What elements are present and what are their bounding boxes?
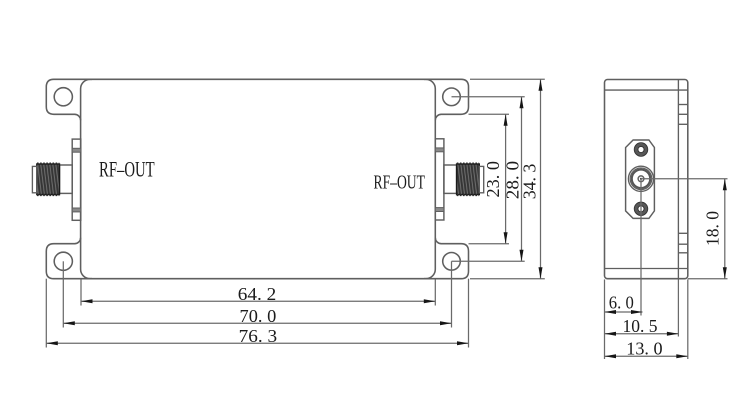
dimension line 10.5 (605, 333, 679, 335)
flange hole band lower-right (435, 208, 444, 212)
mounting hole top-left (54, 88, 72, 106)
centerline from jack center to right (18.0) (641, 178, 728, 180)
extension line right ear outer edge (76.3) (468, 279, 470, 348)
side view face strip line (677, 80, 679, 279)
mounting ear bottom-left (46, 238, 92, 279)
extension line bottom-right hole center (70.0) (451, 261, 453, 327)
svg-text:70. 0: 70. 0 (240, 306, 277, 326)
SMA connector right: end cap (479, 166, 483, 192)
thread crest bumps right top (457, 163, 479, 165)
svg-text:RF–OUT: RF–OUT (374, 172, 425, 194)
svg-text:76. 3: 76. 3 (239, 326, 278, 346)
svg-text:6. 0: 6. 0 (609, 293, 634, 313)
dimension line 64.2 (81, 300, 435, 302)
SMA jack center dot (640, 178, 642, 180)
extension strip line down (10.5) (677, 279, 679, 336)
flange hole band upper-right (435, 148, 444, 152)
SMA jack thick ring (632, 170, 650, 188)
strip tick 3 (678, 123, 687, 125)
arrows 6.0 (605, 310, 617, 314)
strip tick 2 (678, 113, 687, 115)
svg-text:RF–OUT: RF–OUT (99, 156, 155, 181)
arrows 13.0 (605, 354, 617, 358)
SMA jack center pin circle (638, 176, 644, 182)
extension line from bottom edge (34.3) (470, 278, 545, 280)
extension line bottom-left hole center (70.0) (62, 261, 64, 327)
side view lid seam top (605, 89, 688, 91)
thread crest bumps right bottom (457, 194, 479, 196)
dimension line 70.0 (63, 322, 451, 324)
flange hole band lower-left (72, 208, 81, 212)
arrows 23.0 (504, 114, 508, 126)
side view lid seam bottom (605, 268, 688, 270)
flange screw hole top (636, 145, 646, 155)
arrows 34.3 (539, 79, 543, 91)
SMA jack outer circle (628, 166, 653, 191)
svg-text:18. 0: 18. 0 (703, 211, 723, 246)
strip tick 6 (678, 252, 687, 254)
mounting hole bottom-right (443, 252, 461, 270)
flange screw hole bottom (636, 204, 646, 214)
SMA flange face plate (626, 140, 655, 218)
svg-text:23. 0: 23. 0 (483, 161, 503, 198)
strip tick 4 (678, 232, 687, 234)
SMA connector left: barrel (60, 165, 73, 193)
mounting ear bottom-right (424, 238, 469, 279)
extension line from bottom-right hole center (28.0) (452, 260, 525, 262)
mounting hole bottom-left (54, 252, 72, 270)
extension line from bottom ear top edge (23.0) (469, 243, 510, 245)
enclosure body outline (81, 79, 436, 278)
extension line left ear outer edge (76.3) (45, 279, 47, 348)
arrows 76.3 (46, 341, 58, 345)
strip tick 1 (678, 104, 687, 106)
dimension line 13.0 (605, 355, 688, 357)
svg-text:34. 3: 34. 3 (520, 164, 540, 200)
extension line body bottom-left corner (64.2) (80, 279, 82, 305)
thread crest bumps left top (37, 163, 59, 165)
svg-text:10. 5: 10. 5 (623, 316, 658, 336)
flange hole band upper-left (72, 148, 81, 152)
thread crest bumps left bottom (37, 194, 59, 196)
strip tick 5 (678, 243, 687, 245)
extension line from top edge (34.3) (470, 78, 545, 80)
mounting hole top-right (443, 88, 461, 106)
SMA jack second circle (630, 168, 652, 190)
svg-text:64. 2: 64. 2 (238, 284, 277, 304)
SMA connector right: barrel (444, 165, 457, 193)
SMA connector left: threaded section (37, 164, 60, 195)
extension line from top-right hole center (28.0) (452, 96, 525, 98)
extension left edge down (604, 279, 606, 359)
SMA connector left: flange (72, 139, 81, 220)
dimension line 28.0 (521, 97, 523, 261)
extension of bottom edge to right (18.0) (688, 278, 728, 280)
svg-text:13. 0: 13. 0 (626, 338, 662, 358)
arrows 18.0 (723, 179, 727, 191)
SMA connector left: end cap (32, 166, 36, 192)
dimension line 23.0 (505, 114, 507, 243)
arrows 10.5 (605, 332, 617, 336)
dimension line 34.3 (540, 79, 542, 278)
side view body outline (605, 80, 688, 279)
SMA connector right: flange (435, 139, 444, 220)
dimension line 18.0 (724, 179, 726, 279)
dimension line 76.3 (46, 342, 468, 344)
SMA connector right: threaded section (457, 164, 480, 195)
extension line body bottom-right corner (64.2) (434, 279, 436, 305)
centerline from jack center down (6.0) (640, 179, 642, 316)
mounting ear top-right (424, 79, 469, 120)
mounting ear top-left (46, 79, 92, 120)
arrows 64.2 (81, 299, 93, 303)
arrows 28.0 (520, 97, 524, 109)
arrows 70.0 (63, 321, 75, 325)
extension right edge down (13.0) (687, 279, 689, 359)
dimension line 6.0 (605, 311, 643, 313)
extension line from top ear bottom edge (23.0) (469, 113, 510, 115)
